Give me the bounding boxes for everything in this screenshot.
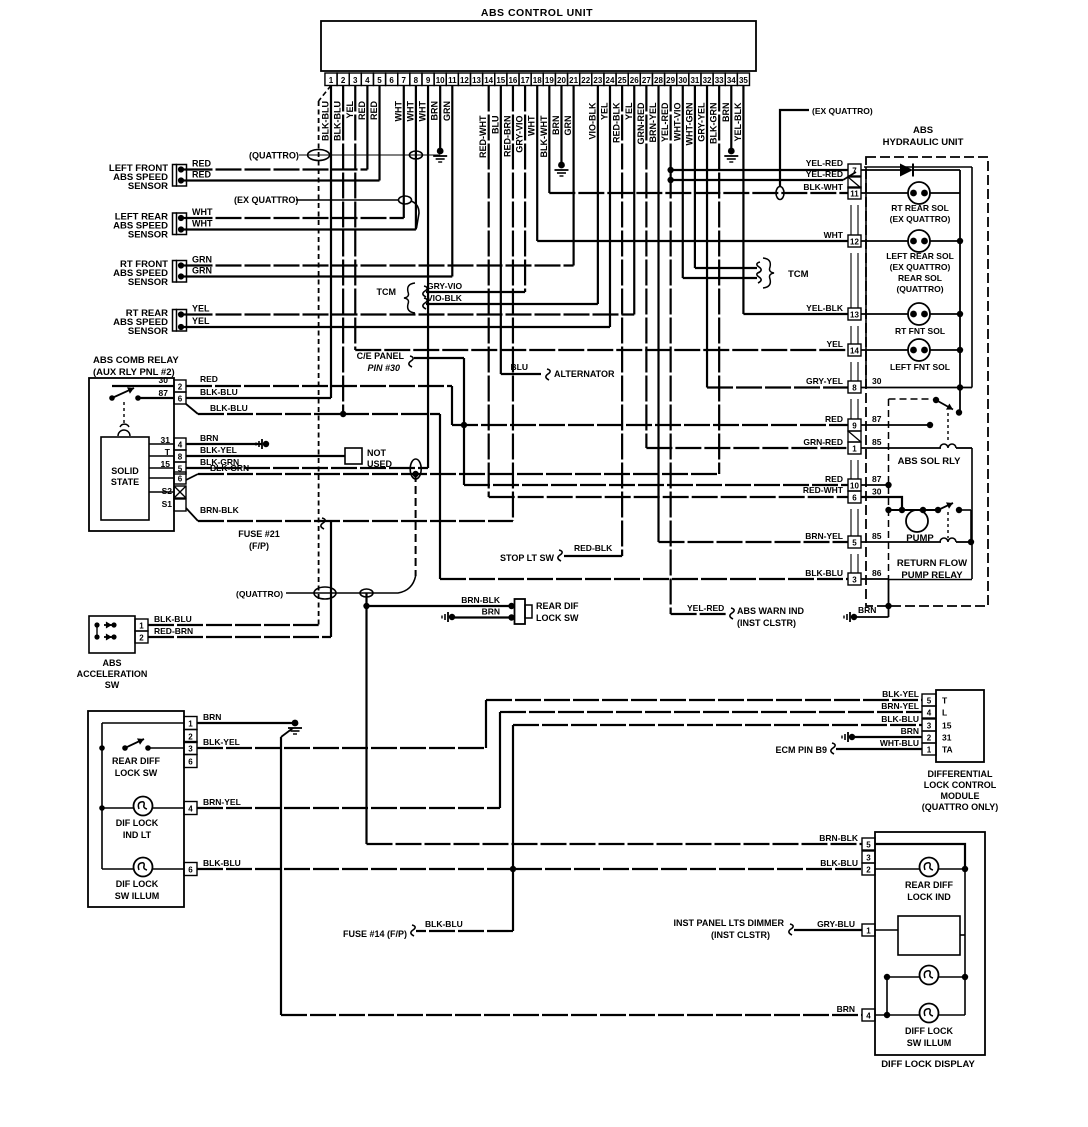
svg-text:C/E PANEL: C/E PANEL	[357, 351, 405, 361]
svg-text:(EX QUATTRO): (EX QUATTRO)	[812, 106, 873, 116]
svg-text:5: 5	[927, 697, 932, 706]
svg-text:GRN: GRN	[192, 266, 212, 276]
svg-text:4: 4	[178, 441, 183, 450]
svg-text:(INST CLSTR): (INST CLSTR)	[737, 618, 796, 628]
svg-text:2: 2	[188, 733, 193, 742]
svg-text:GRN: GRN	[192, 255, 212, 265]
svg-text:1: 1	[866, 927, 871, 936]
svg-text:6: 6	[178, 395, 183, 404]
svg-text:87: 87	[159, 388, 169, 398]
svg-text:BRN: BRN	[551, 116, 561, 136]
svg-text:BLK-BLU: BLK-BLU	[820, 858, 858, 868]
svg-text:85: 85	[872, 437, 882, 447]
svg-text:6: 6	[188, 758, 193, 767]
svg-text:LOCK IND: LOCK IND	[907, 892, 951, 902]
svg-text:WHT-GRN: WHT-GRN	[684, 103, 694, 146]
svg-text:4: 4	[188, 805, 193, 814]
svg-text:9: 9	[852, 422, 857, 431]
svg-text:1: 1	[927, 746, 932, 755]
svg-text:5: 5	[377, 76, 382, 85]
svg-text:6: 6	[852, 494, 857, 503]
svg-text:6: 6	[178, 475, 183, 484]
svg-text:BLK-GRN: BLK-GRN	[210, 463, 249, 473]
svg-text:86: 86	[872, 568, 882, 578]
svg-text:30: 30	[159, 375, 169, 385]
svg-text:RED-WHT: RED-WHT	[478, 115, 488, 158]
svg-text:ALTERNATOR: ALTERNATOR	[554, 369, 615, 379]
svg-text:RED: RED	[825, 474, 843, 484]
svg-text:RED: RED	[200, 374, 218, 384]
svg-text:17: 17	[521, 76, 530, 85]
svg-text:RED-WHT: RED-WHT	[803, 485, 844, 495]
svg-text:24: 24	[606, 76, 615, 85]
svg-text:(EX QUATTRO): (EX QUATTRO)	[890, 262, 951, 272]
svg-text:YEL-RED: YEL-RED	[687, 603, 724, 613]
svg-text:IND LT: IND LT	[123, 830, 152, 840]
svg-text:BLK-BLU: BLK-BLU	[881, 714, 919, 724]
svg-text:REAR SOL: REAR SOL	[898, 273, 942, 283]
svg-text:2: 2	[927, 734, 932, 743]
svg-text:DIF LOCK: DIF LOCK	[116, 818, 159, 828]
svg-text:2: 2	[341, 76, 346, 85]
svg-text:(F/P): (F/P)	[249, 541, 269, 551]
svg-text:BRN: BRN	[858, 605, 876, 615]
svg-text:BLK-BLU: BLK-BLU	[210, 403, 248, 413]
svg-text:STATE: STATE	[111, 477, 139, 487]
svg-text:ECM PIN B9: ECM PIN B9	[775, 745, 827, 755]
svg-text:ABS: ABS	[913, 125, 933, 136]
svg-text:WHT: WHT	[192, 219, 213, 229]
svg-text:GRY-VIO: GRY-VIO	[427, 281, 462, 291]
svg-text:8: 8	[852, 384, 857, 393]
svg-text:BLK-WHT: BLK-WHT	[803, 182, 843, 192]
svg-text:YEL-BLK: YEL-BLK	[733, 102, 743, 141]
svg-text:RED-BLK: RED-BLK	[612, 102, 622, 143]
svg-text:REAR DIFF: REAR DIFF	[112, 756, 160, 766]
svg-text:YEL: YEL	[192, 304, 210, 314]
svg-text:(QUATTRO): (QUATTRO)	[896, 284, 943, 294]
svg-text:8: 8	[178, 453, 183, 462]
svg-text:BRN-BLK: BRN-BLK	[200, 505, 240, 515]
svg-text:WHT-VIO: WHT-VIO	[672, 103, 682, 142]
svg-text:26: 26	[630, 76, 639, 85]
svg-text:SENSOR: SENSOR	[128, 230, 168, 241]
svg-text:BLK-YEL: BLK-YEL	[200, 445, 237, 455]
svg-text:3: 3	[927, 722, 932, 731]
svg-text:21: 21	[569, 76, 578, 85]
svg-text:RT REAR SOL: RT REAR SOL	[891, 203, 949, 213]
svg-text:20: 20	[557, 76, 566, 85]
svg-text:8: 8	[414, 76, 419, 85]
svg-text:YEL-RED: YEL-RED	[806, 158, 843, 168]
svg-text:BLK-BLU: BLK-BLU	[321, 101, 331, 141]
svg-text:LOCK SW: LOCK SW	[115, 768, 158, 778]
svg-text:BLK-BLU: BLK-BLU	[154, 614, 192, 624]
svg-text:RETURN FLOW: RETURN FLOW	[897, 558, 967, 569]
svg-text:STOP LT SW: STOP LT SW	[500, 553, 555, 563]
svg-text:23: 23	[593, 76, 602, 85]
svg-text:19: 19	[545, 76, 554, 85]
svg-text:27: 27	[642, 76, 651, 85]
svg-text:NOT: NOT	[367, 448, 387, 458]
svg-text:LEFT REAR SOL: LEFT REAR SOL	[886, 251, 954, 261]
svg-text:T: T	[942, 696, 948, 706]
svg-text:SOLID: SOLID	[111, 466, 139, 476]
svg-text:4: 4	[927, 709, 932, 718]
svg-text:RED: RED	[192, 159, 212, 169]
svg-text:4: 4	[866, 1012, 871, 1021]
svg-text:3: 3	[852, 576, 857, 585]
svg-text:12: 12	[460, 76, 469, 85]
svg-text:BLK-WHT: BLK-WHT	[539, 115, 549, 157]
svg-text:YEL-BLK: YEL-BLK	[806, 303, 844, 313]
svg-text:10: 10	[850, 482, 859, 491]
svg-text:85: 85	[872, 531, 882, 541]
svg-text:BLU: BLU	[511, 362, 528, 372]
svg-text:INST PANEL LTS DIMMER: INST PANEL LTS DIMMER	[673, 918, 784, 928]
svg-text:SENSOR: SENSOR	[128, 326, 168, 337]
svg-text:DIFFERENTIAL: DIFFERENTIAL	[928, 769, 993, 779]
svg-text:16: 16	[508, 76, 517, 85]
svg-text:YEL: YEL	[624, 102, 634, 120]
svg-text:WHT-BLU: WHT-BLU	[880, 738, 919, 748]
svg-text:(QUATTRO): (QUATTRO)	[236, 589, 283, 599]
svg-text:13: 13	[850, 311, 859, 320]
svg-text:BRN-BLK: BRN-BLK	[461, 595, 501, 605]
svg-text:31: 31	[690, 76, 699, 85]
svg-text:15: 15	[496, 76, 505, 85]
svg-text:1: 1	[139, 622, 144, 631]
svg-text:6: 6	[188, 866, 193, 875]
svg-text:RED: RED	[825, 414, 843, 424]
svg-text:2: 2	[866, 866, 871, 875]
svg-text:GRY-BLU: GRY-BLU	[817, 919, 855, 929]
svg-text:BLK-GRN: BLK-GRN	[709, 103, 719, 145]
svg-text:BLK-BLU: BLK-BLU	[805, 568, 843, 578]
svg-text:4: 4	[365, 76, 370, 85]
svg-text:LOCK SW: LOCK SW	[536, 613, 579, 623]
svg-text:WHT: WHT	[824, 230, 844, 240]
svg-text:RED-BRN: RED-BRN	[502, 116, 512, 158]
svg-text:BRN-BLK: BRN-BLK	[819, 833, 859, 843]
svg-text:GRY-YEL: GRY-YEL	[697, 102, 707, 142]
svg-text:YEL: YEL	[599, 102, 609, 120]
svg-text:GRY-YEL: GRY-YEL	[806, 376, 843, 386]
svg-text:FUSE #21: FUSE #21	[238, 529, 280, 539]
svg-text:30: 30	[678, 76, 687, 85]
svg-text:RED-BRN: RED-BRN	[154, 626, 193, 636]
svg-text:1: 1	[852, 445, 857, 454]
svg-text:BRN: BRN	[200, 433, 218, 443]
svg-text:BRN: BRN	[901, 726, 919, 736]
svg-text:REAR DIFF: REAR DIFF	[905, 880, 953, 890]
svg-text:BRN: BRN	[203, 712, 221, 722]
svg-text:L: L	[942, 708, 947, 718]
svg-text:RED: RED	[192, 170, 212, 180]
svg-text:BLK-BLU: BLK-BLU	[333, 101, 343, 141]
svg-text:35: 35	[739, 76, 748, 85]
svg-text:TA: TA	[942, 745, 953, 755]
svg-text:BLK-BLU: BLK-BLU	[200, 387, 238, 397]
svg-text:22: 22	[581, 76, 590, 85]
svg-text:SENSOR: SENSOR	[128, 181, 168, 192]
svg-text:GRN: GRN	[442, 101, 452, 121]
svg-text:10: 10	[436, 76, 445, 85]
svg-text:RED: RED	[357, 101, 367, 121]
svg-text:30: 30	[872, 376, 882, 386]
svg-text:30: 30	[872, 487, 882, 497]
svg-text:BLK-BLU: BLK-BLU	[425, 919, 463, 929]
svg-text:1: 1	[329, 76, 334, 85]
svg-text:RED: RED	[369, 101, 379, 121]
svg-text:WHT: WHT	[418, 101, 428, 122]
svg-text:BLU: BLU	[490, 116, 500, 135]
svg-text:PIN #30: PIN #30	[367, 363, 400, 373]
svg-text:15: 15	[942, 721, 952, 731]
svg-text:YEL-RED: YEL-RED	[806, 169, 843, 179]
svg-text:18: 18	[533, 76, 542, 85]
svg-text:YEL-RED: YEL-RED	[660, 102, 670, 142]
svg-text:YEL: YEL	[345, 101, 355, 119]
svg-text:RT FNT SOL: RT FNT SOL	[895, 326, 945, 336]
svg-text:3: 3	[353, 76, 358, 85]
svg-text:DIF LOCK: DIF LOCK	[116, 879, 159, 889]
svg-text:BRN: BRN	[837, 1004, 855, 1014]
svg-text:BRN-YEL: BRN-YEL	[805, 531, 843, 541]
svg-text:BRN: BRN	[430, 101, 440, 121]
svg-text:32: 32	[703, 76, 712, 85]
svg-text:BRN: BRN	[482, 607, 500, 617]
svg-text:LOCK CONTROL: LOCK CONTROL	[924, 780, 997, 790]
svg-text:ABS COMB RELAY: ABS COMB RELAY	[93, 355, 179, 366]
svg-text:SW ILLUM: SW ILLUM	[115, 891, 160, 901]
svg-text:28: 28	[654, 76, 663, 85]
svg-text:VIO-BLK: VIO-BLK	[427, 293, 463, 303]
svg-text:(QUATTRO): (QUATTRO)	[249, 151, 299, 161]
svg-text:9: 9	[426, 76, 431, 85]
svg-text:2: 2	[139, 634, 144, 643]
svg-text:14: 14	[850, 347, 859, 356]
svg-text:LEFT FNT SOL: LEFT FNT SOL	[890, 362, 950, 372]
svg-text:3: 3	[866, 854, 871, 863]
svg-text:YEL: YEL	[826, 339, 843, 349]
svg-text:31: 31	[942, 733, 952, 743]
svg-text:WHT: WHT	[192, 207, 213, 217]
svg-text:(QUATTRO ONLY): (QUATTRO ONLY)	[922, 802, 999, 812]
svg-text:87: 87	[872, 414, 882, 424]
svg-text:2: 2	[178, 383, 183, 392]
svg-text:SW: SW	[105, 680, 120, 690]
svg-text:SENSOR: SENSOR	[128, 277, 168, 288]
svg-text:WHT: WHT	[405, 101, 415, 122]
svg-text:6: 6	[389, 76, 394, 85]
svg-text:S2: S2	[162, 486, 173, 496]
svg-text:RED-BLK: RED-BLK	[574, 543, 613, 553]
svg-text:BLK-YEL: BLK-YEL	[882, 689, 919, 699]
svg-text:7: 7	[402, 76, 407, 85]
svg-text:34: 34	[727, 76, 736, 85]
svg-text:(EX QUATTRO): (EX QUATTRO)	[234, 195, 298, 205]
svg-text:12: 12	[850, 238, 859, 247]
svg-text:TCM: TCM	[788, 269, 809, 280]
svg-text:13: 13	[472, 76, 481, 85]
svg-text:DIFF LOCK: DIFF LOCK	[905, 1026, 953, 1036]
svg-text:(EX QUATTRO): (EX QUATTRO)	[890, 214, 951, 224]
svg-text:29: 29	[666, 76, 675, 85]
svg-text:GRN: GRN	[563, 116, 573, 136]
svg-text:TCM: TCM	[377, 287, 397, 297]
svg-text:33: 33	[715, 76, 724, 85]
svg-text:SW ILLUM: SW ILLUM	[907, 1038, 952, 1048]
svg-text:5: 5	[852, 539, 857, 548]
svg-text:ABS SOL RLY: ABS SOL RLY	[898, 456, 961, 467]
svg-text:YEL: YEL	[192, 316, 210, 326]
svg-text:WHT: WHT	[527, 115, 537, 136]
svg-text:MODULE: MODULE	[941, 791, 980, 801]
svg-text:DIFF LOCK DISPLAY: DIFF LOCK DISPLAY	[881, 1059, 975, 1070]
svg-text:FUSE #14 (F/P): FUSE #14 (F/P)	[343, 929, 407, 939]
svg-text:BRN-YEL: BRN-YEL	[203, 797, 241, 807]
svg-text:1: 1	[188, 720, 193, 729]
svg-text:BRN: BRN	[721, 103, 731, 123]
svg-text:HYDRAULIC UNIT: HYDRAULIC UNIT	[883, 137, 964, 148]
svg-text:BRN-YEL: BRN-YEL	[648, 102, 658, 143]
svg-text:REAR DIF: REAR DIF	[536, 601, 579, 611]
svg-text:BRN-YEL: BRN-YEL	[881, 701, 919, 711]
svg-text:GRN-RED: GRN-RED	[803, 437, 843, 447]
svg-text:7: 7	[852, 167, 857, 176]
svg-text:ABS WARN IND: ABS WARN IND	[737, 606, 804, 616]
svg-text:S1: S1	[162, 499, 173, 509]
svg-text:VIO-BLK: VIO-BLK	[587, 102, 597, 139]
svg-text:ABS CONTROL UNIT: ABS CONTROL UNIT	[481, 7, 593, 19]
svg-text:GRY-VIO: GRY-VIO	[515, 116, 525, 153]
svg-text:14: 14	[484, 76, 493, 85]
svg-text:87: 87	[872, 474, 882, 484]
svg-text:3: 3	[188, 745, 193, 754]
svg-text:25: 25	[618, 76, 627, 85]
svg-text:(INST CLSTR): (INST CLSTR)	[711, 930, 770, 940]
svg-text:11: 11	[850, 190, 859, 199]
svg-text:ACCELERATION: ACCELERATION	[77, 669, 148, 679]
svg-text:GRN-RED: GRN-RED	[636, 102, 646, 144]
svg-text:BLK-YEL: BLK-YEL	[203, 737, 240, 747]
svg-text:11: 11	[448, 76, 457, 85]
svg-text:BLK-BLU: BLK-BLU	[203, 858, 241, 868]
svg-text:5: 5	[866, 841, 871, 850]
svg-text:WHT: WHT	[393, 101, 403, 122]
svg-text:ABS: ABS	[102, 658, 121, 668]
